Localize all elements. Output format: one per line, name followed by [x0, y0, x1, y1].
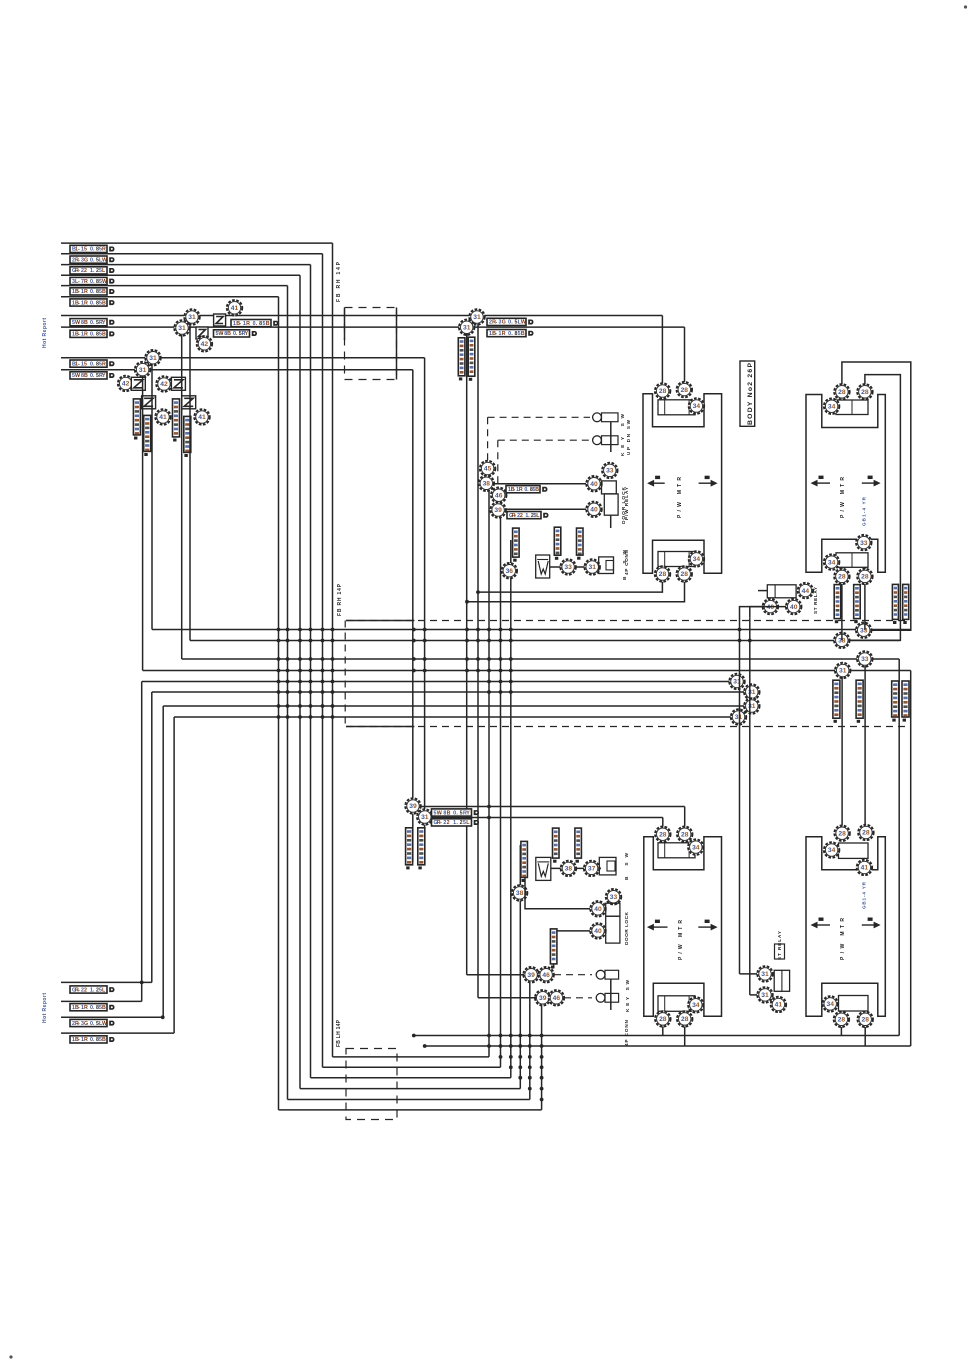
- junction: [499, 1034, 503, 1038]
- wire: [864, 567, 866, 569]
- junction: [286, 680, 290, 684]
- svg-text:40: 40: [590, 507, 598, 514]
- switch contact: [593, 413, 602, 422]
- junction: [331, 715, 335, 719]
- harness pass-through box: [346, 1049, 397, 1120]
- wire: [163, 705, 744, 707]
- junction: [487, 657, 491, 661]
- svg-text:31: 31: [588, 564, 596, 571]
- svg-text:Y: Y: [102, 373, 106, 379]
- connector 31: [757, 987, 772, 1002]
- connector 41: [155, 409, 170, 424]
- svg-text:33: 33: [564, 564, 572, 571]
- svg-text:41: 41: [159, 414, 167, 421]
- junction: [412, 628, 416, 632]
- svg-text:Hot Report: Hot Report: [42, 993, 48, 1023]
- wire: [758, 590, 767, 592]
- diode block: [196, 327, 208, 339]
- wire label strip: [458, 338, 465, 381]
- wire label: [70, 288, 114, 295]
- svg-text:W: W: [521, 320, 526, 326]
- wire: [551, 867, 601, 869]
- svg-text:31: 31: [473, 314, 481, 321]
- junction: [277, 704, 281, 708]
- connector 38: [479, 476, 494, 491]
- dashed wire: [346, 726, 905, 728]
- svg-text:Hot Report: Hot Report: [42, 318, 48, 348]
- connector 41: [857, 860, 872, 875]
- wire label strip: [902, 681, 909, 722]
- dashed wire: [487, 417, 489, 461]
- dashed wire: [488, 416, 590, 418]
- block connector: [836, 400, 868, 415]
- wire label strip: [892, 681, 899, 722]
- junction: [298, 669, 302, 673]
- wire: [332, 243, 334, 1057]
- wire: [143, 670, 911, 672]
- junction: [465, 669, 469, 673]
- svg-text:40: 40: [790, 604, 798, 611]
- junction: [528, 1065, 532, 1069]
- junction: [298, 704, 302, 708]
- switch body: [602, 413, 619, 422]
- svg-text:45: 45: [484, 466, 492, 473]
- junction: [309, 704, 313, 708]
- wire label: [70, 256, 114, 263]
- svg-text:44: 44: [802, 588, 810, 595]
- wire label: [432, 809, 479, 816]
- wire label strip: [833, 680, 840, 723]
- svg-text:37: 37: [588, 866, 596, 873]
- wire label strip: [903, 584, 909, 624]
- svg-text:Y: Y: [102, 320, 106, 326]
- junction: [423, 657, 427, 661]
- svg-text:46: 46: [542, 972, 550, 979]
- wire label: [507, 512, 548, 519]
- wire: [610, 979, 612, 1010]
- wire: [310, 265, 312, 1078]
- svg-text:42: 42: [160, 381, 168, 388]
- junction: [540, 1044, 544, 1048]
- dashed wire: [346, 620, 905, 622]
- junction: [331, 639, 335, 643]
- svg-text:28: 28: [838, 1017, 846, 1024]
- clip component: [536, 857, 551, 880]
- wire: [750, 994, 757, 996]
- svg-text:B: B: [102, 332, 106, 338]
- junction: [331, 690, 335, 694]
- junction: [309, 639, 313, 643]
- connector 45: [480, 461, 495, 476]
- junction: [140, 981, 144, 985]
- junction: [487, 680, 491, 684]
- lock actuator: [606, 903, 620, 916]
- svg-text:-: -: [495, 331, 497, 337]
- component block P/W motor LH front outline: [806, 395, 885, 573]
- svg-text:ST RELAY: ST RELAY: [813, 587, 818, 614]
- wire: [311, 1077, 511, 1079]
- wire: [61, 1000, 142, 1002]
- wire: [739, 688, 741, 974]
- connector 34: [824, 399, 839, 414]
- connector 42: [156, 376, 171, 391]
- junction: [286, 704, 290, 708]
- wire: [61, 242, 333, 244]
- junction: [518, 1076, 522, 1080]
- wire label strip: [144, 415, 151, 456]
- junction: [499, 657, 503, 661]
- junction: [528, 1055, 532, 1059]
- direction arrow: [699, 476, 718, 487]
- junction: [509, 1055, 513, 1059]
- junction: [309, 680, 313, 684]
- junction: [331, 657, 335, 661]
- junction: [465, 628, 469, 632]
- scan artifact: [9, 1355, 12, 1358]
- svg-text:28: 28: [659, 571, 667, 578]
- connector 40: [763, 599, 778, 614]
- wire label strip: [577, 528, 584, 560]
- junction: [518, 1055, 522, 1059]
- block connector: [839, 843, 869, 858]
- svg-text:40: 40: [594, 928, 602, 935]
- svg-text:4P CONN: 4P CONN: [624, 1019, 629, 1046]
- connector 28: [834, 1012, 849, 1027]
- svg-text:39: 39: [539, 995, 547, 1002]
- svg-text:33: 33: [610, 894, 618, 901]
- dashed wire: [554, 974, 592, 976]
- svg-text:-: -: [514, 513, 516, 519]
- wire: [510, 540, 512, 563]
- junction: [277, 690, 281, 694]
- junction: [412, 1034, 416, 1038]
- wire: [864, 584, 866, 626]
- connector 38: [561, 861, 576, 876]
- connector 28: [834, 384, 849, 399]
- connector 46: [491, 488, 506, 503]
- junction: [476, 628, 480, 632]
- junction: [499, 1044, 503, 1048]
- diode block: [131, 377, 145, 390]
- svg-text:2: 2: [520, 513, 523, 519]
- wire label: [70, 1019, 114, 1026]
- buzzer: [599, 857, 616, 875]
- connector 34: [688, 839, 703, 854]
- junction: [277, 715, 281, 719]
- junction: [298, 690, 302, 694]
- svg-text:-: -: [78, 257, 80, 263]
- direction arrow: [811, 918, 831, 929]
- svg-text:G: G: [84, 257, 88, 263]
- junction: [277, 657, 281, 661]
- connector 31: [184, 309, 199, 324]
- junction: [540, 1087, 544, 1091]
- box edge: [344, 308, 346, 341]
- wire label strip: [173, 399, 180, 442]
- switch contact: [596, 993, 605, 1002]
- diode block: [171, 377, 185, 390]
- harness box edge: [344, 621, 346, 727]
- svg-text:W: W: [102, 257, 107, 263]
- svg-text:46: 46: [553, 995, 561, 1002]
- wire: [554, 931, 590, 968]
- component box: [775, 944, 785, 959]
- junction: [476, 657, 480, 661]
- wire: [61, 285, 288, 287]
- svg-text:41: 41: [231, 305, 239, 312]
- relay: [767, 585, 796, 598]
- svg-text:R: R: [84, 1005, 88, 1011]
- svg-text:W: W: [102, 1021, 107, 1027]
- junction: [286, 669, 290, 673]
- wire: [525, 878, 590, 909]
- wire label: [70, 372, 114, 379]
- wire label: [214, 330, 257, 337]
- connector 34: [688, 997, 703, 1012]
- svg-text:-: -: [440, 820, 442, 826]
- wire label: [70, 1036, 114, 1043]
- junction: [286, 628, 290, 632]
- wire: [550, 566, 600, 568]
- svg-text:B: B: [102, 1037, 106, 1043]
- junction: [540, 1076, 544, 1080]
- svg-text:B: B: [227, 331, 231, 337]
- junction: [465, 657, 469, 661]
- wire: [300, 1088, 520, 1090]
- component block P/W motor RH rear outline: [644, 837, 722, 1017]
- connector 31: [744, 684, 759, 699]
- connector 33: [606, 889, 621, 904]
- dashed wire: [498, 439, 590, 441]
- junction: [487, 816, 491, 820]
- junction: [476, 639, 480, 643]
- svg-text:33: 33: [606, 468, 614, 475]
- junction: [540, 1034, 544, 1038]
- direction arrow: [698, 920, 717, 931]
- connector 41: [227, 300, 242, 315]
- wire: [467, 974, 524, 976]
- component block P/W motor LH rear outline: [806, 837, 885, 1017]
- wire label strip: [854, 585, 861, 624]
- svg-text:UP DN SW: UP DN SW: [626, 419, 631, 455]
- svg-text:GB1-4 YR: GB1-4 YR: [862, 881, 867, 909]
- svg-text:2: 2: [447, 820, 450, 826]
- svg-text:28: 28: [861, 389, 869, 396]
- svg-text:R: R: [84, 300, 88, 306]
- svg-text:-: -: [221, 331, 223, 337]
- junction: [748, 639, 752, 643]
- svg-text:34: 34: [692, 1002, 700, 1009]
- wire: [151, 364, 153, 630]
- connector 33: [602, 463, 617, 478]
- wire: [488, 491, 490, 1057]
- svg-text:R: R: [84, 1037, 88, 1043]
- wire: [840, 1027, 842, 1036]
- junction: [499, 639, 503, 643]
- svg-text:GB1-4 YR: GB1-4 YR: [862, 496, 867, 526]
- svg-text:R: R: [502, 331, 506, 337]
- junction: [499, 628, 503, 632]
- wire: [141, 682, 143, 1002]
- svg-text:42: 42: [201, 341, 209, 348]
- wire: [142, 376, 144, 671]
- wire label: [70, 330, 114, 337]
- junction: [487, 669, 491, 673]
- svg-text:Y: Y: [466, 810, 470, 816]
- wire: [864, 1027, 866, 1046]
- wire: [510, 578, 512, 1078]
- wire: [182, 658, 900, 660]
- wire: [872, 629, 911, 631]
- svg-text:B: B: [84, 373, 88, 379]
- connector 31: [744, 698, 759, 713]
- connector 31: [145, 350, 160, 365]
- connector 31: [585, 559, 600, 574]
- svg-text:28: 28: [681, 831, 689, 838]
- svg-text:R: R: [84, 279, 88, 285]
- wire: [740, 607, 764, 688]
- svg-text:-: -: [78, 373, 80, 379]
- svg-text:-: -: [495, 320, 497, 326]
- diode block: [142, 396, 156, 409]
- connector 36: [502, 563, 517, 578]
- junction: [331, 628, 335, 632]
- wire: [661, 316, 663, 385]
- junction: [509, 657, 513, 661]
- wire: [181, 335, 183, 659]
- junction: [499, 669, 503, 673]
- junction: [321, 715, 325, 719]
- svg-text:40: 40: [594, 906, 602, 913]
- direction arrow: [862, 918, 881, 929]
- svg-text:-: -: [78, 1037, 80, 1043]
- wire label strip: [554, 527, 561, 560]
- wire: [841, 584, 843, 622]
- junction: [509, 680, 513, 684]
- connector 33: [856, 535, 871, 550]
- lock actuator: [602, 481, 617, 494]
- switch contact: [596, 970, 605, 979]
- connector 28: [858, 1012, 873, 1027]
- svg-text:B: B: [521, 331, 525, 337]
- svg-text:B: B: [102, 300, 106, 306]
- wire label: [506, 486, 547, 493]
- junction: [499, 690, 503, 694]
- scan artifact: [964, 5, 967, 8]
- wire: [610, 422, 612, 452]
- junction: [277, 628, 281, 632]
- junction: [321, 657, 325, 661]
- svg-text:31: 31: [421, 814, 429, 821]
- svg-text:-: -: [78, 987, 80, 993]
- wire: [898, 659, 900, 1036]
- junction: [331, 704, 335, 708]
- block connector: [658, 996, 695, 1012]
- component block P/W motor RH front outline: [643, 394, 722, 573]
- wire label strip: [133, 399, 140, 440]
- buzzer: [599, 557, 614, 574]
- direction arrow: [647, 476, 665, 487]
- block connector: [658, 552, 695, 567]
- connector 42: [118, 376, 133, 391]
- svg-text:28: 28: [838, 389, 846, 396]
- wire: [278, 297, 280, 1110]
- wire: [864, 666, 866, 825]
- wire: [684, 1027, 686, 1047]
- connector legend box: [740, 361, 755, 426]
- block connector: [658, 400, 695, 415]
- svg-text:34: 34: [828, 403, 836, 410]
- connector 28: [655, 566, 670, 581]
- junction: [277, 680, 281, 684]
- junction: [423, 1044, 427, 1048]
- connector 28: [677, 566, 692, 581]
- wire: [425, 1045, 911, 1047]
- wire: [541, 1005, 543, 1110]
- wire: [506, 508, 586, 510]
- junction: [298, 639, 302, 643]
- svg-text:-: -: [78, 289, 80, 295]
- connector 39: [405, 798, 420, 813]
- wire: [864, 626, 866, 630]
- svg-text:34: 34: [828, 559, 836, 566]
- svg-text:W: W: [102, 279, 107, 285]
- junction: [499, 1055, 503, 1059]
- junction: [298, 715, 302, 719]
- connector 28: [677, 382, 692, 397]
- wire: [412, 370, 414, 862]
- junction: [161, 1015, 165, 1019]
- wire: [61, 981, 152, 983]
- svg-text:B: B: [102, 289, 106, 295]
- svg-text:-: -: [513, 487, 515, 493]
- wire: [61, 1016, 163, 1018]
- wire: [190, 640, 834, 642]
- svg-text:B: B: [102, 1005, 106, 1011]
- wire label: [70, 1004, 114, 1011]
- junction: [321, 704, 325, 708]
- junction: [286, 639, 290, 643]
- junction: [487, 805, 491, 809]
- junction: [423, 669, 427, 673]
- wire label strip: [550, 929, 557, 969]
- connector 39: [490, 502, 505, 517]
- connector 38: [512, 885, 527, 900]
- wire: [500, 518, 502, 1068]
- wire label strip: [184, 416, 191, 457]
- connector 38: [834, 633, 849, 648]
- wire label strip: [468, 337, 475, 381]
- wire: [414, 1035, 899, 1037]
- svg-text:-: -: [78, 1005, 80, 1011]
- svg-text:39: 39: [409, 803, 417, 810]
- junction: [321, 639, 325, 643]
- wire label: [70, 245, 114, 252]
- svg-text:33: 33: [860, 540, 868, 547]
- dashed wire: [564, 997, 592, 999]
- connector 34: [824, 842, 839, 857]
- wire: [323, 1066, 501, 1068]
- wire: [478, 997, 536, 999]
- junction: [738, 639, 742, 643]
- switch contact: [593, 436, 602, 445]
- junction: [476, 669, 480, 673]
- junction: [509, 669, 513, 673]
- svg-text:4P CONN: 4P CONN: [624, 549, 629, 575]
- block connector: [836, 553, 868, 568]
- svg-text:-: -: [78, 279, 80, 285]
- svg-text:R: R: [84, 289, 88, 295]
